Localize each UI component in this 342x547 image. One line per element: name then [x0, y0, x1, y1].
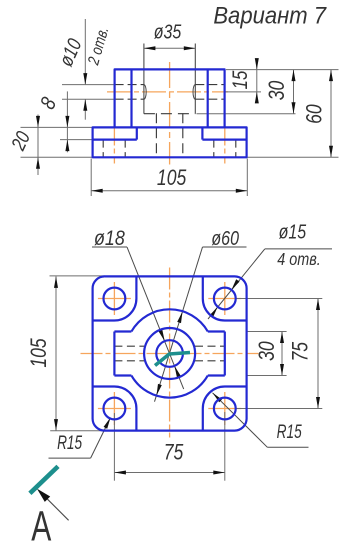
svg-text:60: 60	[303, 104, 327, 124]
svg-text:75: 75	[164, 441, 184, 465]
svg-text:15: 15	[229, 70, 252, 89]
svg-text:R15: R15	[277, 421, 303, 443]
svg-text:ø60: ø60	[211, 227, 239, 249]
svg-text:75: 75	[289, 341, 313, 361]
svg-text:4 отв.: 4 отв.	[277, 250, 320, 270]
svg-text:30: 30	[255, 341, 279, 361]
svg-text:30: 30	[265, 81, 289, 101]
svg-text:ø15: ø15	[279, 221, 307, 243]
svg-text:ø35: ø35	[154, 21, 182, 43]
svg-text:105: 105	[157, 166, 187, 190]
svg-text:ø18: ø18	[94, 226, 125, 250]
svg-text:Вариант 7: Вариант 7	[213, 2, 327, 29]
svg-text:R15: R15	[57, 432, 83, 454]
svg-text:A: A	[31, 501, 51, 547]
svg-text:105: 105	[27, 338, 51, 368]
